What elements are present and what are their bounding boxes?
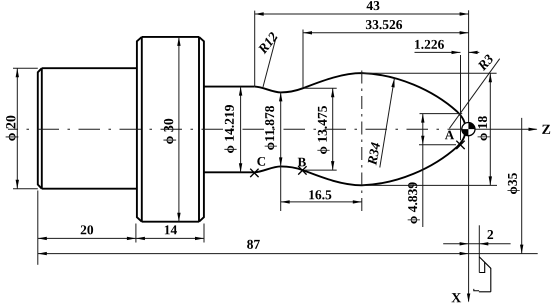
phi20 cylinder left face	[38, 68, 42, 189]
phi11.878 dimension line	[279, 92, 282, 211]
Z axis	[458, 128, 538, 131]
phi30 cylinder right face	[199, 37, 204, 222]
extension line x=37.8	[37, 191, 39, 265]
R12 leader line	[263, 37, 276, 88]
phi4.839 bottom extension line	[419, 144, 456, 146]
phi30 label	[163, 119, 176, 144]
node B label	[298, 158, 306, 167]
dimension 16.5	[281, 190, 362, 203]
phi30 cylinder bottom edge	[142, 221, 199, 223]
node B mark	[298, 166, 306, 174]
phi20 top extension line	[13, 67, 38, 69]
phi20 label	[6, 116, 19, 141]
dimension 1.226	[415, 40, 480, 54]
phi14.219 dimension line	[239, 87, 242, 173]
phi4.839 dimension line	[421, 114, 424, 227]
phi4.839 top extension line	[420, 113, 463, 115]
X axis / right end extension line	[467, 10, 470, 302]
phi18 top extension line	[361, 72, 497, 74]
phi35 dimension line	[520, 118, 523, 254]
profile curve R12-R34-R3	[255, 73, 466, 185]
extension line x=135.9	[135, 224, 137, 243]
centerline	[8, 128, 458, 130]
phi18 label	[478, 116, 490, 140]
extension line at B (x=303)	[302, 30, 304, 89]
phi4.839 label	[408, 182, 420, 223]
phi18 bottom extension line	[363, 184, 497, 186]
phi30 dimension line	[177, 37, 180, 222]
X axis label	[451, 293, 461, 302]
phi14.219 label	[224, 105, 236, 153]
phi13.475 dimension line	[331, 88, 334, 170]
phi14.219 section top edge	[204, 86, 255, 88]
phi13.475 top extension line	[304, 87, 337, 89]
phi11.878 label	[265, 106, 277, 150]
phi18 dimension line	[489, 73, 492, 185]
node C label	[257, 157, 265, 166]
R12 label	[258, 32, 277, 54]
dimension 2	[443, 230, 510, 245]
phi20 bottom extension line	[13, 188, 38, 190]
R34 label	[368, 142, 380, 165]
dimension 43	[255, 1, 469, 16]
tool nose diagonal	[479, 257, 491, 268]
phi30 right chamfer line	[198, 37, 200, 222]
phi14.219 section bottom edge	[204, 171, 255, 173]
tool bottom edge	[474, 289, 491, 292]
workpiece origin symbol	[462, 123, 475, 136]
dimension 20	[38, 225, 136, 240]
Z axis label	[542, 125, 550, 134]
phi20 dimension line	[16, 68, 19, 189]
phi20 cylinder bottom edge	[42, 188, 137, 190]
tool left edge / dimension-2 right extension	[478, 225, 480, 272]
extension line x=204	[203, 224, 205, 243]
phi35 label	[507, 173, 519, 194]
node A label	[445, 131, 454, 140]
tool insert notch	[479, 263, 484, 273]
phi30 left chamfer line	[141, 37, 143, 222]
phi13.475 label	[317, 106, 329, 154]
R3 leader line	[449, 59, 499, 129]
R3 label	[478, 55, 493, 72]
R34 leader line	[380, 78, 395, 167]
phi13.475 bottom extension line	[305, 169, 337, 171]
bulge max axis dash-dot line	[361, 71, 363, 212]
tool right edge	[490, 268, 492, 292]
node C mark	[250, 169, 258, 177]
phi20 chamfer line	[41, 68, 43, 189]
node A mark	[456, 141, 464, 149]
dimension 14	[136, 225, 204, 240]
phi30 cylinder left face	[137, 37, 142, 222]
phi30 cylinder top edge	[142, 36, 199, 38]
extension line at C (x=254.7)	[254, 11, 256, 86]
dimension 87 and phi35 bottom extension	[38, 240, 538, 256]
phi20 cylinder top edge	[42, 67, 137, 69]
extension line at A (x=460.5)	[460, 55, 462, 140]
dimension 33.526	[303, 20, 469, 34]
